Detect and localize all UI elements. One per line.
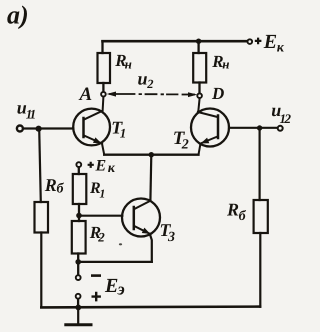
svg-text:3: 3 <box>167 230 175 245</box>
svg-text:A: A <box>79 84 93 105</box>
svg-text:а): а) <box>7 1 29 30</box>
svg-text:б: б <box>239 209 247 224</box>
svg-text:2: 2 <box>97 229 105 244</box>
svg-text:к: к <box>277 41 285 56</box>
svg-text:э: э <box>117 280 125 299</box>
svg-text:2: 2 <box>181 137 189 152</box>
svg-text:u: u <box>138 69 148 89</box>
svg-text:E: E <box>95 158 107 175</box>
svg-text:R: R <box>44 175 57 195</box>
svg-text:н: н <box>222 56 229 71</box>
svg-text:к: к <box>108 161 116 176</box>
svg-text:R: R <box>226 200 239 220</box>
svg-text:н: н <box>125 57 132 72</box>
svg-text:1: 1 <box>99 187 105 201</box>
svg-text:E: E <box>263 31 277 53</box>
svg-text:2: 2 <box>146 77 153 91</box>
svg-text:E: E <box>104 275 118 297</box>
svg-text:1: 1 <box>120 125 127 140</box>
svg-text:б: б <box>57 182 65 197</box>
svg-text:D: D <box>211 84 224 103</box>
